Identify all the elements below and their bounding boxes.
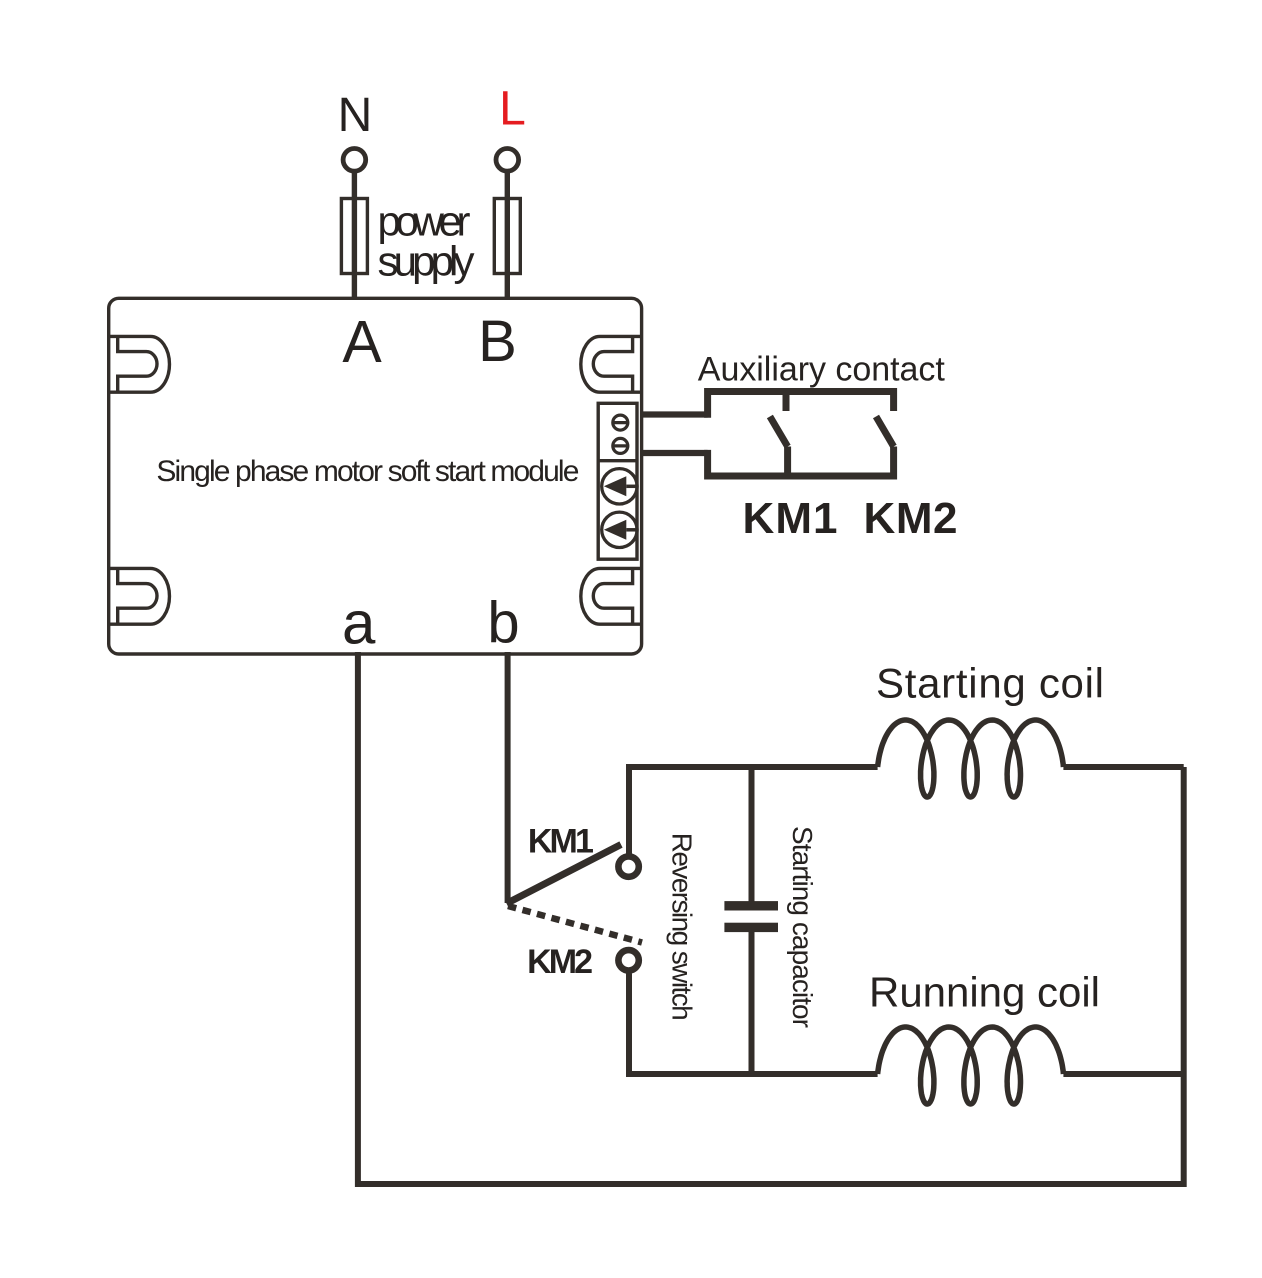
svg-text:Running coil: Running coil xyxy=(869,969,1100,1016)
svg-text:KM2: KM2 xyxy=(864,494,958,543)
svg-text:L: L xyxy=(499,83,526,136)
svg-text:supply: supply xyxy=(378,238,475,285)
svg-text:N: N xyxy=(338,89,373,142)
svg-text:Auxiliary contact: Auxiliary contact xyxy=(698,351,946,389)
svg-text:Reversing switch: Reversing switch xyxy=(667,833,698,1021)
svg-text:KM2: KM2 xyxy=(527,943,593,981)
svg-text:A: A xyxy=(342,309,382,375)
svg-text:a: a xyxy=(342,589,376,656)
svg-text:KM1: KM1 xyxy=(743,494,838,543)
svg-text:KM1: KM1 xyxy=(528,823,594,861)
svg-text:Starting capacitor: Starting capacitor xyxy=(787,826,818,1028)
svg-text:b: b xyxy=(487,590,519,655)
svg-text:Starting coil: Starting coil xyxy=(876,660,1104,707)
svg-text:B: B xyxy=(478,309,517,374)
svg-text:Single phase motor soft start: Single phase motor soft start module xyxy=(156,455,579,488)
